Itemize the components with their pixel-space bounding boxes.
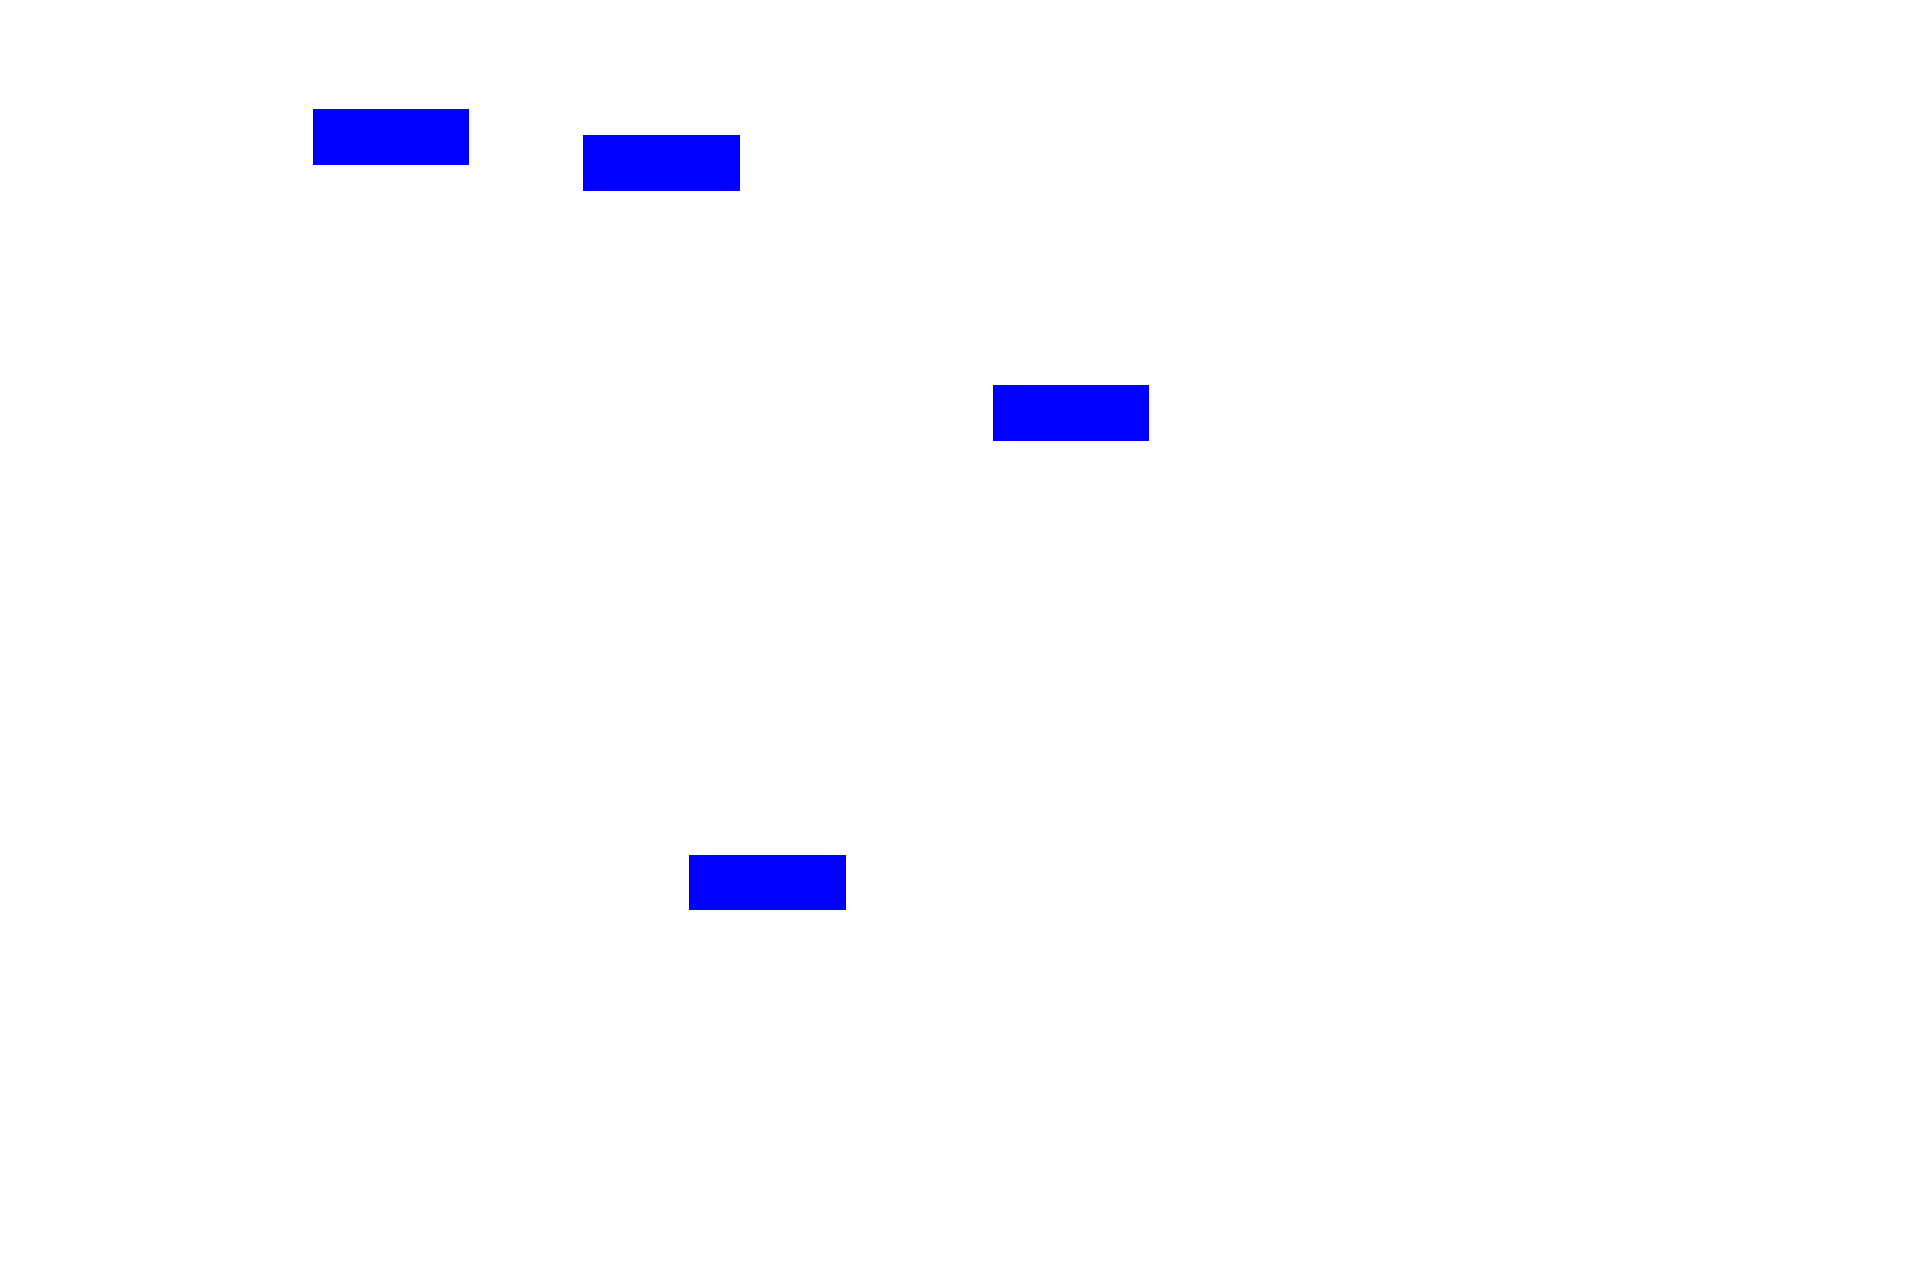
blue rectangle 1 (top-left) [313, 109, 469, 164]
blue rectangle 3 (right) [993, 385, 1149, 441]
blue rectangle 2 [583, 135, 740, 191]
blue rectangle 4 (bottom) [689, 855, 846, 910]
